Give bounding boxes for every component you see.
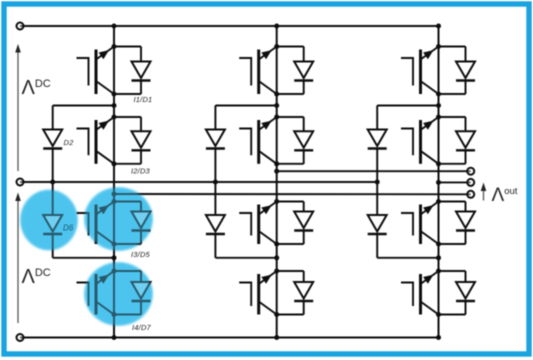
diode D2 leg 3 (upper clamp) — [368, 130, 387, 147]
node: output terminal a — [467, 191, 474, 198]
transistor I1 leg 3 (IGBT) — [401, 58, 413, 86]
node: leg 3 lower clamp junction — [436, 255, 441, 260]
diode D1 leg 1 (antiparallel) — [114, 46, 141, 48]
transistor I2 leg 3 (IGBT) — [401, 129, 413, 156]
node: I3 collector — [112, 199, 117, 204]
node: I3 emitter — [274, 242, 279, 247]
diode D5 leg 2 (antiparallel) — [277, 201, 304, 203]
node: leg 1 DC+ rail junction — [112, 24, 117, 29]
diode D6 leg 3 (lower clamp) — [368, 215, 387, 232]
node: leg 3 upper clamp junction — [436, 103, 441, 108]
arrow: VDC upper measurement — [17, 52, 19, 171]
arrow: Vout measurement — [483, 190, 485, 201]
node: I4 emitter — [112, 312, 117, 317]
transistor I2 leg 2 (IGBT) — [239, 129, 251, 156]
node: I1 collector — [112, 44, 117, 49]
wire: leg 2 lower clamp branch — [214, 182, 216, 215]
wire: negative DC rail — [20, 336, 439, 338]
node: leg 2 DC+ rail junction — [274, 24, 279, 29]
node: I3 collector — [436, 199, 441, 204]
node: phase c tap — [436, 180, 441, 185]
node: leg 2 DC- rail junction — [274, 335, 279, 340]
wire: leg 2 upper clamp branch — [215, 105, 276, 107]
diode D5 leg 3 (antiparallel) — [439, 201, 466, 203]
wire: positive DC rail — [20, 25, 439, 27]
highlight circle around IGBT I3 — [85, 188, 153, 251]
node: I2 collector — [274, 115, 279, 120]
node: leg 1 upper clamp junction — [112, 103, 117, 108]
wire: leg 2 centre line — [276, 26, 278, 338]
node: output terminal b — [467, 168, 474, 175]
node: I3 collector — [274, 199, 279, 204]
node: DC midpoint terminal — [17, 179, 24, 186]
svg-text:I3/D5: I3/D5 — [131, 250, 151, 259]
svg-text:I4/D7: I4/D7 — [132, 323, 152, 332]
node: I1 collector — [274, 44, 279, 49]
node: output terminal c — [467, 179, 474, 186]
diode D5 leg 1 (antiparallel) — [114, 201, 141, 203]
transistor I3 leg 1 (IGBT) — [77, 213, 89, 236]
transistor I1 leg 2 (IGBT) — [239, 58, 251, 86]
node: I2 emitter — [112, 161, 117, 166]
node: I3 emitter — [436, 242, 441, 247]
diode D2 leg 2 (upper clamp) — [206, 130, 225, 147]
diode D1 leg 2 (antiparallel) — [277, 46, 304, 48]
node: DC+ terminal — [17, 23, 24, 30]
arrow: VDC lower measurement — [17, 201, 19, 324]
transistor I3 leg 3 (IGBT) — [401, 213, 413, 236]
wire: leg 3 upper clamp branch — [377, 105, 438, 107]
node: phase a tap — [112, 192, 117, 197]
node: DC- terminal — [17, 334, 24, 341]
wire: phase output b — [277, 170, 471, 172]
diode D1 leg 3 (antiparallel) — [439, 46, 466, 48]
highlight circle around IGBT I4 — [85, 263, 153, 326]
node: I3 emitter — [112, 242, 117, 247]
node: I4 emitter — [436, 312, 441, 317]
diode D2 leg 1 (upper clamp) — [43, 130, 62, 147]
highlight circle around clamp diode D6 — [21, 190, 78, 250]
diode D7 leg 3 (antiparallel) — [439, 270, 466, 272]
node: leg 1 neutral junction — [50, 180, 55, 185]
node: I4 collector — [436, 269, 441, 274]
svg-text:I1/D1: I1/D1 — [134, 95, 153, 104]
node: I1 emitter — [274, 92, 279, 97]
svg-text:D2: D2 — [64, 138, 75, 147]
diode D3 leg 2 (antiparallel) — [277, 116, 304, 118]
wire: DC midpoint (neutral) bus — [20, 181, 378, 183]
diode D3 leg 3 (antiparallel) — [439, 116, 466, 118]
node: I1 collector — [436, 44, 441, 49]
node: leg 2 upper clamp junction — [274, 103, 279, 108]
node: I2 collector — [436, 115, 441, 120]
diode D7 leg 1 (antiparallel) — [114, 270, 141, 272]
wire: leg 3 centre line — [438, 26, 440, 338]
transistor I1 leg 1 (IGBT) — [77, 58, 89, 86]
node: phase b tap — [274, 169, 279, 174]
diode D3 leg 1 (antiparallel) — [114, 116, 141, 118]
node: I2 emitter — [436, 161, 441, 166]
svg-text:I2/D3: I2/D3 — [131, 167, 151, 176]
transistor I3 leg 2 (IGBT) — [239, 213, 251, 236]
node: I1 emitter — [112, 92, 117, 97]
highlight overlay I3 — [85, 188, 153, 251]
highlight overlay D6 — [21, 190, 78, 250]
node: I1 emitter — [436, 92, 441, 97]
highlight overlay I4 — [85, 263, 153, 326]
node: I4 emitter — [274, 312, 279, 317]
node: I2 emitter — [274, 161, 279, 166]
wire: leg 1 upper clamp branch — [53, 105, 114, 107]
diode D6 leg 1 (lower clamp) — [43, 215, 62, 232]
wire: phase output c — [439, 181, 471, 183]
node: leg 3 neutral junction — [375, 180, 380, 185]
diode D6 leg 2 (lower clamp) — [206, 215, 225, 232]
transistor I2 leg 1 (IGBT) — [77, 129, 89, 156]
node: leg 3 DC- rail junction — [436, 335, 441, 340]
diode D7 leg 2 (antiparallel) — [277, 270, 304, 272]
node: I4 collector — [112, 269, 117, 274]
transistor I4 leg 1 (IGBT) — [77, 283, 89, 307]
wire: leg 1 lower clamp branch — [52, 182, 54, 215]
transistor I4 leg 2 (IGBT) — [239, 283, 251, 307]
node: leg 1 DC- rail junction — [112, 335, 117, 340]
wire: leg 1 centre line — [113, 26, 115, 338]
transistor I4 leg 3 (IGBT) — [401, 283, 413, 307]
node: I4 collector — [274, 269, 279, 274]
wire: phase output a — [114, 193, 471, 195]
node: leg 1 lower clamp junction — [112, 255, 117, 260]
wire: leg 3 lower clamp branch — [376, 182, 378, 215]
node: leg 2 lower clamp junction — [274, 255, 279, 260]
svg-text:D6: D6 — [63, 224, 74, 233]
node: leg 2 neutral junction — [213, 180, 218, 185]
node: I2 collector — [112, 115, 117, 120]
node: leg 3 DC+ rail junction — [436, 24, 441, 29]
